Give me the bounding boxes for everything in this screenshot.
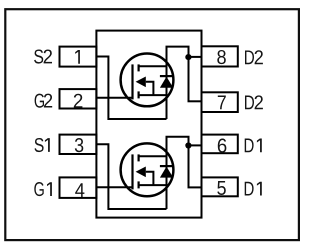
pin 6 number [218, 139, 227, 153]
transistor Q1 circle [121, 143, 174, 196]
pin 8 box [202, 46, 238, 66]
IC body outline [96, 31, 201, 218]
Q2 drain bar [139, 65, 167, 67]
label D2 pin8 [245, 50, 263, 64]
label S1 [35, 138, 50, 152]
pin 7 number [218, 96, 226, 110]
pin 8 number [217, 50, 226, 64]
pin 5 number [217, 181, 226, 195]
Q2 body diode triangle [160, 77, 173, 88]
Q2 body arrow [136, 77, 146, 88]
Q2 channel tick bottom [138, 91, 140, 98]
node D1 junction dot [185, 142, 191, 148]
wire G1: pin4 to gate of Q1 [96, 186, 132, 188]
wire to pin 8 [189, 56, 202, 58]
transistor Q2 circle [121, 54, 174, 107]
Q2 body lead [146, 82, 154, 95]
Q2 body diode cathode bar [160, 75, 173, 77]
pin 1 number [75, 50, 80, 64]
Q1 channel tick top [138, 154, 140, 161]
label D1 pin5 [245, 182, 262, 196]
label G2 [35, 94, 53, 108]
Q1 body arrow [136, 167, 146, 178]
wire S2: pin1 to source of Q2 [96, 57, 166, 120]
Q1 body diode cathode bar [160, 165, 173, 167]
pin 3 number [75, 138, 84, 152]
label S2 [34, 49, 52, 63]
pin 4 box [60, 177, 97, 198]
wire to pin 7 [188, 100, 202, 102]
pin 3 box [60, 135, 97, 154]
pin 7 box [202, 92, 238, 112]
node D2 junction dot [185, 54, 191, 60]
Q2 source bar [139, 94, 167, 96]
Q1 drain bar [139, 155, 167, 157]
wire S1: pin3 to source of Q1 [96, 144, 166, 209]
pin 6 box [202, 135, 238, 154]
Q1 body diode triangle [160, 167, 173, 178]
wire G2: pin2 to gate of Q2 [96, 97, 132, 99]
label D1 pin6 [245, 139, 262, 153]
pin 1 box [60, 47, 97, 67]
Q2 channel tick top [138, 64, 140, 71]
wire drain trunk Q2 [166, 47, 189, 119]
pin 5 box [202, 177, 238, 196]
pin 2 box [60, 89, 97, 108]
pin 4 number [75, 183, 84, 197]
Q1 gate bar [131, 154, 133, 189]
wire to pin 5 [188, 186, 202, 188]
Q2 gate bar [131, 64, 133, 99]
Q1 body lead [146, 172, 154, 185]
label G1 [34, 182, 52, 196]
pin 2 number [74, 94, 83, 108]
label D2 pin7 [245, 95, 263, 109]
wire drain trunk Q1 [166, 137, 189, 209]
Q1 channel tick bottom [138, 181, 140, 188]
wire to pin 6 [189, 144, 202, 146]
Q1 source bar [139, 184, 167, 186]
